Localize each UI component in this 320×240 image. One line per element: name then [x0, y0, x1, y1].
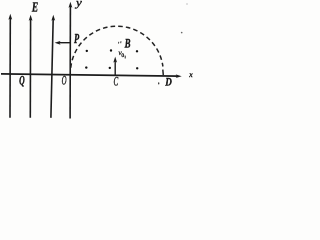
y-axis — [69, 5, 71, 119]
B-field dot 3 — [136, 50, 138, 52]
svg-text:0: 0 — [121, 53, 124, 59]
field line 3 arrowhead — [51, 15, 55, 21]
svg-text:C: C — [114, 74, 119, 89]
B-field dot 6 — [136, 67, 138, 69]
faint speck top right corner — [186, 3, 187, 4]
y-axis arrowhead — [69, 2, 73, 8]
field line 2 — [29, 18, 31, 118]
svg-text:Q: Q — [19, 72, 25, 87]
point P velocity arrow (leftward) — [58, 42, 71, 44]
svg-text:P: P — [74, 32, 79, 47]
B-field dot 5 — [109, 67, 111, 69]
svg-text:O: O — [62, 73, 67, 87]
speckle left of D — [158, 82, 159, 84]
field line 2 arrowhead — [29, 15, 33, 21]
field line 3 — [51, 18, 53, 118]
B-field dot 2 — [110, 49, 112, 51]
svg-text:x: x — [188, 70, 193, 79]
x-axis — [1, 74, 178, 76]
stray ink bar inside circle — [125, 56, 126, 59]
final arc dash at D — [162, 70, 165, 75]
field line 1 — [9, 17, 11, 118]
speckle top right — [181, 32, 183, 34]
svg-text:y: y — [75, 0, 82, 9]
field line 1 arrowhead — [8, 14, 12, 20]
svg-text:E: E — [31, 0, 38, 15]
B-field dot 1 — [86, 50, 88, 52]
velocity arrow v0 at C (upward) — [114, 61, 116, 75]
svg-text:D: D — [164, 75, 172, 89]
dashed field-region circle — [71, 26, 163, 68]
x-axis arrowhead — [176, 74, 182, 78]
svg-text:B: B — [124, 36, 131, 50]
B-field dot 4 — [85, 66, 87, 68]
stray mark pair left of B — [118, 42, 119, 44]
